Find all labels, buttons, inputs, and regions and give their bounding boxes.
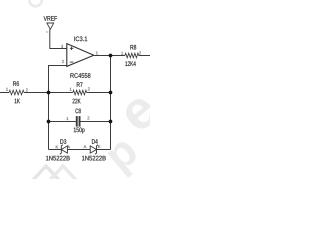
watermark letter p — [107, 139, 145, 178]
capacitor C8 plate 1 — [76, 116, 78, 127]
op-amp minus input mark — [70, 61, 73, 63]
op-amp plus input mark — [70, 47, 73, 50]
VREF pin tick — [46, 31, 48, 33]
D3 pin A — [67, 146, 70, 149]
label D3 — [60, 139, 66, 144]
wire C8 left — [49, 121, 76, 123]
label RC4558 — [70, 73, 90, 78]
junction output node — [109, 54, 113, 58]
wire op-amp output — [94, 55, 125, 57]
pin 1 — [96, 52, 98, 55]
junction right C8 row — [109, 120, 113, 124]
watermark chevron 1 — [33, 166, 59, 180]
node VREF label — [44, 16, 57, 21]
resistor R8 — [125, 53, 139, 58]
value 22K — [73, 99, 81, 104]
resistor R6 — [9, 90, 24, 95]
label R8 — [130, 45, 136, 50]
zener diode D4 triangle — [90, 146, 96, 153]
value 1K — [15, 99, 20, 104]
pin 2 of C8 — [87, 116, 89, 119]
label D4 — [92, 139, 98, 144]
label R6 — [13, 81, 19, 86]
junction left C8 row — [47, 120, 51, 124]
junction input node — [47, 91, 51, 95]
value 12K4 — [125, 61, 135, 66]
D4 pin K — [98, 145, 100, 148]
wire R6 to R7 — [24, 92, 73, 94]
wire R8 to edge — [139, 55, 150, 57]
wire R7 to output node — [87, 92, 111, 94]
label R7 — [77, 82, 83, 87]
label C8 — [75, 109, 80, 114]
wire C8 right — [81, 121, 111, 123]
value 150p — [74, 127, 85, 133]
pin 3 — [61, 45, 63, 48]
op-amp IC3.1 — [67, 44, 94, 67]
pin 1 of R8 — [121, 52, 123, 55]
watermark ring top-left — [29, 0, 42, 6]
junction right main row — [109, 91, 113, 95]
supply symbol VREF — [47, 23, 54, 29]
wire diode row left — [49, 149, 62, 151]
watermark chevron 2 — [50, 166, 76, 180]
label IC3.1 — [74, 36, 87, 41]
wire VREF to pin 3 — [50, 29, 67, 48]
watermark letter e — [121, 94, 160, 133]
pin 2 of R8 — [139, 51, 141, 54]
value 1N5222B of D3 — [46, 156, 70, 161]
pin 1 of C8 — [67, 117, 69, 120]
zener diode D3 triangle — [61, 146, 67, 153]
pin 2 of R7 — [88, 87, 90, 90]
D3 cathode bar — [60, 145, 63, 155]
value 1N5222B of D4 — [82, 156, 106, 161]
wire between diodes — [67, 149, 90, 151]
pin 1 of R6 — [6, 88, 8, 91]
D4 pin A — [84, 145, 87, 148]
pin 2 of R6 — [26, 88, 28, 91]
D3 pin K — [56, 146, 58, 149]
D4 cathode bar — [95, 145, 98, 155]
wire output vertical — [110, 56, 112, 150]
capacitor C8 plate 2 — [79, 116, 81, 127]
resistor R7 — [73, 90, 87, 95]
wire pin 2 to feedback node — [49, 66, 67, 150]
pin 1 of R7 — [70, 88, 72, 91]
pin 2 — [62, 60, 64, 63]
wire input left — [0, 92, 9, 94]
wire diode row right — [97, 149, 111, 151]
